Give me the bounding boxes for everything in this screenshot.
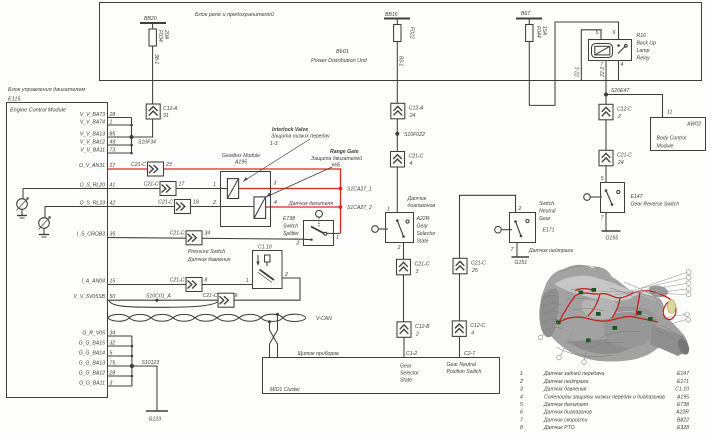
- cluster pin C2-7 Gear Neutral Position Switch: [447, 351, 482, 375]
- svg-text:G155: G155: [606, 236, 619, 242]
- wire A22R pin 2 down: [403, 243, 405, 259]
- svg-text:V_V_BA11: V_V_BA11: [80, 148, 105, 154]
- node S10C01_A: [146, 294, 171, 302]
- svg-text:23: 23: [165, 162, 172, 168]
- svg-text:E147: E147: [631, 194, 644, 200]
- svg-text:38-1: 38-1: [153, 54, 159, 64]
- svg-text:I_S_CROB3: I_S_CROB3: [77, 232, 105, 238]
- svg-text:Relay: Relay: [637, 56, 651, 62]
- svg-text:5: 5: [601, 176, 604, 182]
- wire ECM pin 85 V_V_BA13: [80, 132, 132, 138]
- svg-text:22-2: 22-2: [600, 67, 606, 78]
- wire C21-C 24 to E147: [605, 166, 607, 182]
- gear selector switch A22R: [372, 207, 436, 252]
- svg-text:Датчик делителя: Датчик делителя: [288, 201, 333, 207]
- svg-text:1: 1: [336, 235, 339, 241]
- svg-text:C12-C: C12-C: [617, 106, 632, 112]
- svg-text:C1.10: C1.10: [675, 387, 689, 393]
- svg-text:22-1: 22-1: [575, 67, 581, 78]
- ground G155: [602, 231, 621, 242]
- svg-text:2: 2: [415, 331, 419, 337]
- wire ECM pin 32 G_G_BA15: [79, 341, 132, 347]
- svg-text:4: 4: [274, 200, 277, 206]
- svg-text:B822: B822: [677, 417, 689, 423]
- wire C12-C 2 to C21-C 24: [605, 120, 607, 150]
- svg-text:42: 42: [110, 201, 116, 207]
- body control module AW02: [651, 118, 706, 151]
- svg-text:Selector: Selector: [400, 371, 419, 377]
- svg-text:25: 25: [471, 268, 478, 274]
- svg-text:6: 6: [520, 410, 523, 416]
- wire 22-1: [575, 30, 602, 80]
- svg-text:Соленоиды защиты низких переда: Соленоиды защиты низких передач и диапаз…: [544, 394, 665, 400]
- svg-text:27: 27: [109, 163, 117, 169]
- busbar BB16: [384, 12, 410, 19]
- ECM supply bus: [130, 118, 133, 155]
- svg-text:Защита низких передач: Защита низких передач: [271, 134, 330, 140]
- svg-text:C21-C: C21-C: [170, 277, 185, 283]
- svg-text:9: 9: [235, 293, 238, 299]
- svg-text:Module: Module: [657, 144, 674, 150]
- label Pressure Switch: [187, 249, 231, 263]
- svg-text:Power Distribution Unit: Power Distribution Unit: [311, 58, 367, 64]
- svg-text:S1CA27_2: S1CA27_2: [347, 205, 372, 211]
- svg-text:B601: B601: [336, 49, 349, 55]
- svg-text:G_G_BA12: G_G_BA12: [79, 371, 105, 377]
- svg-text:G_R_V05: G_R_V05: [82, 331, 105, 337]
- svg-text:Gear Neutral: Gear Neutral: [447, 362, 477, 368]
- svg-text:S10123: S10123: [142, 360, 160, 366]
- svg-text:C21-C: C21-C: [158, 199, 173, 205]
- connector C21-C 25: [453, 258, 486, 274]
- svg-text:34: 34: [205, 231, 211, 237]
- fuse F022: [394, 25, 415, 42]
- node S1CA27_1: [339, 187, 372, 193]
- svg-text:A195: A195: [676, 394, 689, 400]
- wire V_V_5V05SB: [108, 300, 220, 307]
- wire C21-C 3 to C12-B: [403, 275, 405, 322]
- svg-text:E738: E738: [283, 216, 295, 222]
- svg-text:S10F022: S10F022: [404, 132, 425, 138]
- svg-text:A195: A195: [234, 160, 247, 166]
- interlock valve (A195 pins 1-3): [213, 179, 277, 199]
- svg-text:G_G_BA13: G_G_BA13: [79, 361, 105, 367]
- ground (ECM driver 2): [39, 235, 49, 238]
- gear reverse switch E147: [584, 176, 680, 231]
- wire 11 to body control module: [606, 95, 672, 118]
- svg-text:Датчик: Датчик: [407, 196, 427, 202]
- svg-text:Датчик нейтрали: Датчик нейтрали: [543, 378, 588, 385]
- svg-text:G_G_BA14: G_G_BA14: [79, 351, 105, 357]
- ground G151: [512, 257, 530, 266]
- svg-text:C21-C: C21-C: [144, 181, 159, 187]
- svg-text:Neutral: Neutral: [539, 209, 556, 215]
- wire 22-2 relay pin 7 to S20E47: [600, 61, 606, 104]
- svg-text:4: 4: [621, 62, 624, 68]
- connector C21-C 24: [599, 150, 632, 166]
- connector C12-C 2: [599, 104, 632, 120]
- connector C12-A 24: [391, 103, 424, 119]
- svg-text:35: 35: [110, 232, 116, 238]
- wire ECM pin 75 G_G_BA13: [79, 361, 132, 367]
- svg-text:83-1: 83-1: [398, 56, 404, 66]
- svg-text:24: 24: [409, 113, 416, 119]
- svg-text:Защита двигателей: Защита двигателей: [311, 155, 362, 162]
- ECM pin 50 V_V_5V05SB: [74, 294, 116, 300]
- svg-text:G_G_BA15: G_G_BA15: [79, 341, 105, 347]
- ECM pin 35 I_S_CROB3: [77, 232, 116, 238]
- V-CAN twisted pair: [108, 314, 333, 322]
- svg-text:C21-C: C21-C: [617, 152, 632, 158]
- wire O_S_RL23: [45, 206, 254, 208]
- svg-text:Датчик задней передачи: Датчик задней передачи: [543, 370, 605, 377]
- svg-text:MID1 Cluster: MID1 Cluster: [270, 387, 300, 393]
- wire pressure sensor pin 2 return: [233, 278, 300, 300]
- svg-text:Gear: Gear: [417, 224, 429, 230]
- photo yellow connector: [667, 300, 675, 314]
- svg-text:G123: G123: [149, 417, 162, 423]
- svg-text:I_A_AN04: I_A_AN04: [82, 279, 106, 285]
- wire to ground G123: [132, 366, 157, 411]
- svg-text:15: 15: [110, 279, 116, 285]
- wire ECM pin 73 V_V_BA11: [80, 148, 131, 154]
- svg-text:4: 4: [471, 330, 474, 336]
- svg-text:3: 3: [520, 387, 523, 393]
- svg-text:1: 1: [387, 207, 390, 213]
- connector C21-C 18: [158, 199, 199, 213]
- svg-text:20A: 20A: [163, 29, 169, 40]
- svg-text:Range Gate: Range Gate: [330, 149, 359, 155]
- svg-text:S10F34: S10F34: [138, 140, 156, 146]
- wire I_A_AN04: [108, 284, 253, 286]
- photo callout leaders: [542, 273, 687, 361]
- svg-text:2: 2: [617, 114, 621, 120]
- wire E171 to C21-C 25: [460, 195, 516, 258]
- svg-text:Switch: Switch: [539, 201, 554, 207]
- svg-text:2: 2: [212, 200, 216, 206]
- svg-text:Back Up: Back Up: [637, 41, 657, 47]
- svg-text:Interlock Valve: Interlock Valve: [272, 127, 308, 133]
- svg-text:Щиток приборов: Щиток приборов: [298, 351, 340, 357]
- svg-text:1: 1: [246, 278, 249, 284]
- svg-text:5: 5: [596, 30, 599, 36]
- svg-text:Engine Control Module: Engine Control Module: [10, 108, 66, 114]
- wire ECM pin 5 G_G_BA14: [79, 351, 132, 357]
- svg-text:C12-A: C12-A: [163, 106, 178, 112]
- wire relay pin 4: [618, 61, 620, 80]
- connector C12-B 2: [397, 322, 430, 338]
- svg-text:State: State: [400, 378, 412, 384]
- wire C21-C 25 to C12-C 4: [459, 274, 461, 321]
- photo red harness: [557, 289, 676, 324]
- callout Range Gate: [266, 149, 362, 197]
- svg-text:AW02: AW02: [686, 122, 701, 128]
- wire ECM pin 3 G_G_BA11: [79, 381, 132, 387]
- instrument cluster MID1 box: [263, 351, 500, 394]
- svg-text:3: 3: [416, 269, 419, 275]
- wire C12-C 4 to cluster C2-7: [459, 336, 461, 357]
- svg-text:2: 2: [518, 206, 522, 212]
- wire C21-C 4 to A22R: [396, 167, 398, 212]
- svg-text:6: 6: [613, 30, 616, 36]
- wire C12-A 31 to splice S10F34: [132, 119, 153, 137]
- svg-text:State: State: [417, 239, 429, 245]
- svg-text:31: 31: [163, 113, 169, 119]
- photo green connectors: [556, 288, 653, 342]
- wire fuse F022 feed: [396, 19, 398, 104]
- svg-text:S1CA27_1: S1CA27_1: [347, 187, 372, 193]
- svg-text:4: 4: [410, 161, 413, 167]
- svg-text:2: 2: [296, 241, 300, 247]
- svg-text:5: 5: [520, 402, 523, 408]
- wire ECM pin 28 V_V_BA73: [80, 112, 132, 118]
- svg-text:Датчик нейтрали: Датчик нейтрали: [528, 247, 573, 254]
- engine control module E115 box: [7, 87, 108, 398]
- svg-text:V_V_5V05SB: V_V_5V05SB: [74, 294, 106, 300]
- svg-text:BB16: BB16: [385, 12, 398, 18]
- svg-text:Switch: Switch: [283, 224, 298, 230]
- svg-text:Датчик скорости: Датчик скорости: [543, 417, 588, 423]
- wire fuse F034 feed: [152, 23, 154, 104]
- wire O_S_RL20: [23, 188, 221, 190]
- svg-text:E328: E328: [677, 425, 689, 431]
- svg-text:B67: B67: [521, 11, 531, 17]
- svg-text:E115: E115: [8, 97, 21, 103]
- connector C21-C 17: [144, 181, 186, 195]
- solenoid driver 2 (ECM internal): [39, 207, 51, 235]
- svg-text:Lamp: Lamp: [637, 48, 650, 54]
- legend list: [519, 370, 690, 431]
- cluster pin C1-2 Gear Selector State: [400, 351, 419, 384]
- svg-text:1: 1: [213, 182, 216, 188]
- gearbox module A195 box: [221, 153, 271, 227]
- svg-text:F034: F034: [157, 30, 163, 42]
- wire I_S_CROB3: [108, 238, 304, 240]
- svg-text:F044: F044: [535, 26, 541, 38]
- switch splitter E738: [283, 210, 341, 246]
- ECM ground bus: [131, 336, 134, 386]
- svg-text:O_S_RL23: O_S_RL23: [80, 201, 106, 207]
- wire S1CA27 feed (red): [108, 169, 341, 233]
- svg-text:8: 8: [520, 425, 523, 431]
- svg-text:G_G_BA11: G_G_BA11: [79, 381, 105, 387]
- node S10F34: [130, 135, 157, 146]
- connector C21-C 3: [397, 259, 430, 275]
- svg-text:O_S_RL20: O_S_RL20: [80, 183, 106, 189]
- svg-text:4: 4: [520, 394, 523, 400]
- svg-text:Gear Reverse Switch: Gear Reverse Switch: [631, 202, 680, 208]
- svg-text:2: 2: [519, 379, 523, 385]
- svg-text:C21-C: C21-C: [409, 154, 424, 160]
- svg-text:18: 18: [193, 199, 199, 205]
- connector C21-C 9: [203, 293, 238, 307]
- power distribution unit B601 box: [100, 3, 702, 81]
- svg-text:V-CAN: V-CAN: [316, 316, 332, 322]
- svg-text:V_V_BA13: V_V_BA13: [80, 132, 105, 138]
- svg-text:C1.10: C1.10: [258, 245, 272, 251]
- ECM pin 15 I_A_AN04: [82, 279, 116, 285]
- svg-text:Gear: Gear: [539, 216, 551, 222]
- svg-text:A22R: A22R: [416, 216, 430, 222]
- svg-text:BB20: BB20: [144, 16, 157, 22]
- svg-text:диапазонов: диапазонов: [408, 203, 436, 209]
- relay R16 Back Up Lamp Relay: [589, 30, 657, 68]
- node S1CA27_2: [339, 205, 372, 211]
- node V-CAN junction: [268, 313, 279, 323]
- svg-text:S10C01_A: S10C01_A: [146, 294, 171, 300]
- connector C12-C 4: [452, 321, 485, 337]
- svg-text:41: 41: [110, 183, 116, 189]
- svg-text:Selector: Selector: [417, 231, 436, 237]
- svg-text:C21-C: C21-C: [131, 162, 146, 168]
- svg-text:A22R: A22R: [675, 410, 689, 416]
- svg-text:S20E47: S20E47: [611, 88, 630, 94]
- wire ECM pin 1 V_V_BA74: [80, 120, 132, 126]
- svg-text:Body Control: Body Control: [657, 136, 688, 142]
- svg-text:C21-C: C21-C: [415, 261, 430, 267]
- svg-text:Датчик давления: Датчик давления: [187, 257, 231, 263]
- ground G123: [146, 411, 168, 423]
- ECM pin 42 O_S_RL23: [80, 201, 116, 207]
- svg-text:Pressure Switch: Pressure Switch: [188, 249, 225, 255]
- svg-text:Датчик делителя: Датчик делителя: [543, 402, 588, 408]
- fuse F044 15A: [526, 19, 547, 42]
- svg-text:C1-2: C1-2: [406, 351, 417, 357]
- svg-text:C21-C: C21-C: [170, 231, 185, 237]
- svg-text:C2-7: C2-7: [464, 351, 476, 357]
- svg-text:G151: G151: [515, 260, 528, 266]
- svg-text:C12-B: C12-B: [415, 324, 430, 330]
- svg-text:Gear: Gear: [400, 364, 412, 370]
- switch neutral gear E171: [495, 201, 557, 257]
- busbar B67: [516, 11, 542, 19]
- svg-text:1-3: 1-3: [270, 141, 278, 147]
- node S20E47: [604, 88, 630, 97]
- svg-text:V_V_BA74: V_V_BA74: [80, 120, 105, 126]
- svg-text:Блок реле и предохранителей: Блок реле и предохранителей: [195, 11, 274, 18]
- svg-text:Блок управления двигателем: Блок управления двигателем: [8, 87, 85, 93]
- svg-text:C12-C: C12-C: [470, 323, 485, 329]
- pressure sensor C1.10: [246, 245, 288, 289]
- svg-text:24: 24: [617, 160, 624, 166]
- svg-text:Датчик PTO: Датчик PTO: [543, 425, 575, 431]
- svg-text:C21-C: C21-C: [471, 260, 486, 266]
- svg-text:Н/Б: Н/Б: [332, 163, 341, 169]
- svg-text:R16: R16: [637, 33, 647, 39]
- ground (ECM driver 1): [17, 216, 27, 219]
- svg-text:3: 3: [274, 181, 277, 187]
- svg-text:Position Switch: Position Switch: [447, 369, 482, 375]
- svg-text:Splitter: Splitter: [283, 231, 299, 237]
- svg-text:O_V_AN31: O_V_AN31: [79, 163, 105, 169]
- connector C21-C 23: [131, 162, 172, 176]
- label Датчик диапазонов: [407, 196, 436, 209]
- svg-text:V_V_BA73: V_V_BA73: [80, 112, 105, 118]
- svg-text:Датчик давления: Датчик давления: [543, 387, 587, 393]
- svg-text:8: 8: [205, 277, 208, 283]
- svg-text:Датчик диапазонов: Датчик диапазонов: [543, 410, 592, 416]
- fuse F034 20A: [149, 29, 169, 46]
- ECM pin 41 O_S_RL20: [80, 183, 116, 189]
- svg-text:V_V_BA12: V_V_BA12: [80, 140, 105, 146]
- wire ECM pin 49 V_V_BA12: [80, 140, 132, 146]
- callout Interlock Valve: [243, 127, 330, 182]
- wire fuse F044 to relay coil: [529, 22, 618, 105]
- svg-text:E171: E171: [677, 379, 689, 385]
- busbar BB20: [140, 16, 166, 23]
- svg-text:2: 2: [397, 245, 401, 251]
- svg-text:11: 11: [667, 110, 672, 116]
- svg-text:F022: F022: [409, 27, 415, 39]
- svg-text:2: 2: [284, 272, 288, 278]
- wire ECM pin 34 G_R_V05: [82, 331, 131, 337]
- node S10123: [130, 360, 160, 368]
- svg-text:E147: E147: [677, 371, 690, 377]
- node S10F022: [395, 119, 425, 152]
- svg-text:50: 50: [110, 294, 116, 300]
- svg-text:1: 1: [520, 371, 523, 377]
- svg-text:C21-C: C21-C: [203, 293, 218, 299]
- wire C12-B to cluster C1-2: [403, 337, 405, 357]
- ECM pin 27 O_V_AN31: [79, 163, 116, 169]
- svg-text:Gearbox Module: Gearbox Module: [222, 153, 260, 159]
- svg-text:15A: 15A: [541, 26, 547, 36]
- connector C12-A 31: [146, 104, 178, 119]
- connector C21-C 34: [170, 231, 211, 245]
- wire ECM pin 28 G_G_BA12: [79, 371, 132, 377]
- range valve (A195 pins 2-4): [212, 197, 277, 219]
- wire V-CAN drop to cluster: [270, 314, 278, 357]
- svg-text:E171: E171: [543, 228, 555, 234]
- connector C21-C 4: [391, 152, 424, 168]
- connector C21-C 8: [170, 277, 208, 291]
- svg-text:E738: E738: [677, 402, 689, 408]
- solenoid driver 1 (ECM internal): [17, 189, 29, 216]
- svg-text:C12-A: C12-A: [409, 105, 424, 111]
- gearbox photo illustration: [538, 265, 691, 365]
